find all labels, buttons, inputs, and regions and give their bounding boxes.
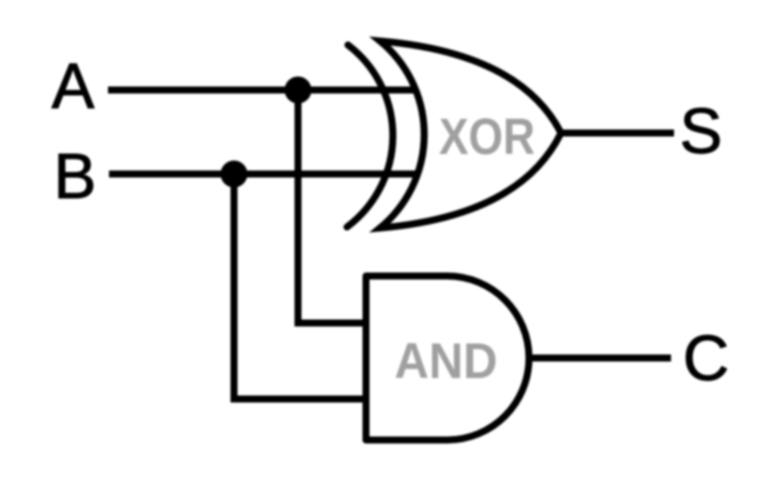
svg-text:A: A [52,50,95,122]
svg-text:S: S [680,95,723,167]
wire AND output to C [530,355,671,362]
svg-text:AND: AND [395,333,498,389]
wire B horizontal to XOR input [109,171,417,178]
xor-gate U1 extra input arc [347,45,393,227]
and-gate U2 body [366,276,529,440]
svg-text:C: C [683,322,729,394]
junction dot on wire A [285,77,312,104]
wire A horizontal to XOR input [108,87,418,94]
wire XOR output to S [561,130,674,137]
xor-gate U1 body [380,41,561,228]
svg-text:B: B [54,140,97,212]
junction dot on wire B [221,161,248,188]
svg-text:XOR: XOR [439,108,535,165]
wire B branch to AND bottom input [234,174,369,399]
wire A branch to AND top input [298,90,369,323]
